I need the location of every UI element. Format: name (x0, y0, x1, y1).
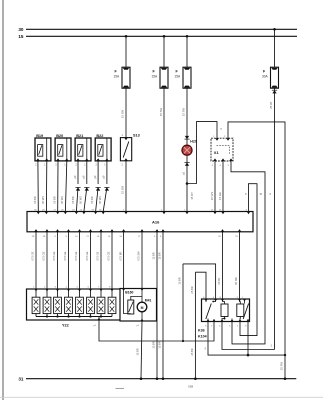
svg-text:15 BR: 15 BR (158, 341, 162, 348)
svg-text:075 GE: 075 GE (107, 251, 111, 260)
svg-text:15 BR: 15 BR (152, 252, 156, 259)
svg-text:05 BR: 05 BR (90, 196, 94, 203)
svg-text:05 WS: 05 WS (60, 196, 64, 204)
svg-text:B160: B160 (125, 291, 133, 295)
svg-text:15 GN: 15 GN (121, 186, 125, 194)
svg-text:B22: B22 (96, 134, 103, 138)
svg-text:05 SW: 05 SW (234, 277, 238, 285)
svg-text:15 BR: 15 BR (136, 348, 140, 355)
svg-text:15A: 15A (175, 75, 182, 79)
svg-text:075 GE: 075 GE (63, 251, 67, 260)
svg-text:S13: S13 (133, 134, 140, 138)
svg-text:M41: M41 (145, 298, 152, 302)
svg-text:075 BR: 075 BR (118, 252, 122, 261)
svg-text:25 BR: 25 BR (190, 286, 194, 293)
svg-text:075 GE: 075 GE (42, 251, 46, 260)
svg-text:05 BL: 05 BL (217, 277, 221, 284)
svg-text:15: 15 (18, 34, 24, 39)
svg-text:K36: K36 (198, 329, 205, 333)
svg-text:Y22: Y22 (62, 324, 69, 328)
svg-text:25 SW: 25 SW (280, 361, 284, 370)
svg-text:15 WS: 15 WS (210, 192, 214, 201)
svg-text:X1: X1 (214, 150, 220, 155)
svg-text:H29: H29 (190, 140, 197, 144)
svg-text:05 BR: 05 BR (33, 196, 37, 203)
svg-text:A16: A16 (152, 219, 160, 224)
svg-text:05 BR: 05 BR (52, 196, 56, 203)
svg-text:15 BR: 15 BR (158, 252, 162, 259)
svg-text:25 RT: 25 RT (269, 101, 273, 109)
svg-text:15 GE: 15 GE (218, 192, 222, 200)
svg-text:075 GE: 075 GE (31, 251, 35, 260)
svg-text:K104: K104 (198, 335, 207, 339)
svg-text:15A: 15A (152, 75, 159, 79)
svg-text:15 BR: 15 BR (178, 277, 182, 284)
svg-text:05 WS: 05 WS (41, 196, 45, 204)
svg-text:B21: B21 (76, 134, 83, 138)
svg-text:15 GN: 15 GN (121, 110, 125, 118)
svg-text:075 SW: 075 SW (137, 251, 141, 261)
svg-text:05 WS: 05 WS (79, 196, 83, 204)
svg-text:31: 31 (18, 377, 24, 382)
svg-text:X58: X58 (188, 385, 194, 389)
svg-text:15A: 15A (114, 75, 121, 79)
svg-text:075 GE: 075 GE (74, 251, 78, 260)
svg-text:05 BR: 05 BR (71, 196, 75, 203)
svg-text:15 BR: 15 BR (152, 341, 156, 348)
svg-text:25 BR: 25 BR (190, 348, 194, 355)
svg-text:075 GE: 075 GE (96, 251, 100, 260)
svg-text:B20: B20 (56, 134, 63, 138)
svg-text:30A: 30A (262, 75, 269, 79)
svg-text:30: 30 (18, 27, 24, 32)
svg-text:075 GE: 075 GE (52, 251, 56, 260)
svg-text:B19: B19 (36, 134, 43, 138)
svg-text:M: M (141, 306, 144, 310)
svg-text:15 SW: 15 SW (159, 107, 163, 116)
svg-text:15 RT: 15 RT (190, 192, 194, 200)
svg-text:075 GE: 075 GE (85, 251, 89, 260)
svg-text:05 WS: 05 WS (98, 196, 102, 204)
svg-text:15 SW: 15 SW (182, 107, 186, 116)
